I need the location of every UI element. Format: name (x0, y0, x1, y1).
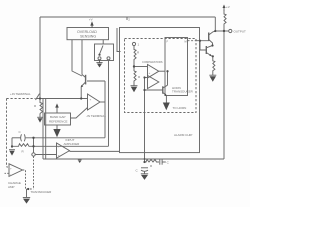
junction dot horn base (199, 40, 201, 42)
svg-text:2: 2 (128, 18, 130, 22)
arrowhead Q3 emitter (164, 94, 166, 96)
comparator A2 (148, 76, 159, 89)
arrowhead +V top right (223, 5, 226, 9)
ground G3 stem (26, 189, 28, 197)
junction dot Q3 base (143, 89, 145, 91)
capacitor C3 shunt (141, 167, 148, 169)
svg-text:F: F (167, 40, 169, 44)
reference block U3 (45, 113, 71, 125)
arrowhead reference up (55, 103, 59, 107)
wire overload box collector lead (81, 40, 83, 75)
wire transducer terminal dashed drop (33, 156, 35, 189)
ground triangle G7 (141, 175, 148, 180)
junction dot comp2 input (143, 76, 145, 78)
ground triangle G1 (97, 64, 102, 68)
filled parts (9, 5, 225, 204)
ground triangle G5 (131, 87, 137, 93)
wire vertical pair A (42, 99, 44, 160)
svg-text:TO HORN: TO HORN (173, 106, 187, 110)
wire left drop from rail (39, 17, 41, 99)
svg-text:+V: +V (89, 17, 93, 21)
wire Q5 emitter to R5 (212, 55, 213, 57)
pin circle right (107, 57, 110, 60)
svg-text:-: - (149, 65, 150, 69)
wire U5 output dashed (23, 170, 34, 189)
big arrow D1 down (53, 129, 60, 137)
wire reference to U2 inverting input (71, 108, 88, 119)
junction dot cap wire (32, 137, 34, 139)
terminal circle output (229, 29, 232, 32)
wire sense vertical (144, 78, 146, 163)
wire cap left (12, 137, 21, 139)
svg-text:-: - (10, 173, 11, 177)
svg-text:+: + (149, 71, 151, 75)
svg-text:AMP: AMP (8, 185, 15, 189)
wire input terminal to amp (35, 154, 56, 156)
wire +IN line to error amp (36, 98, 88, 100)
svg-text:+: + (90, 98, 92, 102)
svg-text:R: R (137, 51, 140, 55)
wire horn feedback solid (196, 39, 209, 41)
wire horn feedback out dashed (188, 40, 197, 42)
stem +V right (223, 7, 226, 11)
wire output drop right side (223, 31, 225, 159)
junction dot transducer gnd (27, 188, 29, 190)
transistor Q1 (81, 75, 85, 87)
ground G8 small below rail (79, 158, 81, 161)
wire U2 output stub (100, 101, 105, 103)
svg-text:AMPLIFIER: AMPLIFIER (64, 142, 81, 146)
wire inner box pin jog (117, 28, 121, 52)
junction dot divider (133, 65, 135, 67)
wire Q3 collector up (167, 71, 169, 85)
capacitor C2 plates (159, 159, 161, 164)
wire pass box right pin down (108, 60, 110, 147)
ground G2 (9, 149, 15, 151)
wire Q3 base (145, 89, 163, 91)
svg-text:ALARM CHIP: ALARM CHIP (174, 133, 192, 137)
svg-text:1: 1 (138, 43, 140, 47)
svg-text:R: R (150, 164, 153, 168)
terminal circle input (32, 153, 35, 156)
svg-text:C: C (136, 169, 139, 173)
svg-text:COMPARATORS: COMPARATORS (142, 60, 163, 64)
wire R3 to node (133, 62, 135, 71)
wire output node run (215, 30, 229, 32)
ground G7 (141, 173, 148, 175)
transistor Q5 (206, 46, 212, 57)
svg-text:+IN TERMINAL: +IN TERMINAL (10, 92, 31, 96)
ground triangle G4 (38, 118, 43, 122)
wire node x33 vertical (33, 138, 35, 153)
arrowhead +V overload (90, 21, 93, 25)
svg-text:C: C (167, 160, 170, 164)
wire Q3 emitter down (165, 96, 167, 103)
horn transducer box (165, 38, 188, 96)
bottom feedback rail (43, 158, 224, 160)
break slash symbol (36, 94, 40, 100)
junction dot pass transistor (98, 54, 100, 56)
svg-text:M: M (185, 40, 187, 44)
svg-text:-: - (58, 145, 59, 149)
ground G4 (39, 114, 41, 118)
svg-text:-IN TERMINAL: -IN TERMINAL (86, 114, 106, 118)
wire cap feedback run (26, 137, 105, 139)
junction dot rail cross (144, 158, 146, 160)
ground triangle G6 (210, 76, 216, 81)
wire base drop to amp output (104, 81, 106, 138)
op-amp U4 input amplifier (57, 143, 70, 158)
ground G1 bar (96, 61, 102, 64)
svg-text:-: - (90, 107, 91, 111)
svg-text:TRANSDUCER: TRANSDUCER (172, 90, 194, 94)
wire G1 stem (98, 60, 101, 63)
wire Q5 base route (200, 41, 206, 50)
node pin 2 tick on rail (126, 17, 128, 20)
svg-text:OUTPUT: OUTPUT (234, 30, 247, 34)
wire comparator output (159, 70, 165, 72)
overload sensing block U1 (67, 28, 109, 40)
arrowhead Q5 emitter (209, 54, 211, 56)
capacitor C1 coupling arcs (21, 134, 26, 141)
ground triangle G3 (23, 199, 30, 204)
dashed transducer top edge (7, 98, 36, 100)
junction dot res wire (32, 145, 34, 147)
RC snubber junction wire (145, 159, 160, 162)
transistor Q3 (163, 85, 168, 96)
comparator A1 (148, 65, 159, 79)
op-amp U5 charge amp (9, 164, 23, 177)
main IC solid box (120, 28, 200, 153)
wire overload box to pass box (102, 40, 104, 44)
wire overload box left lead (72, 40, 82, 76)
terminal circle pin 1 (132, 42, 135, 45)
wire U5 plus input dashed (7, 166, 10, 168)
resistor R2 bias (40, 98, 43, 114)
resistor R1 feedback (12, 144, 109, 147)
pass transistor box (95, 44, 114, 61)
svg-text:SENSING: SENSING (80, 35, 96, 39)
svg-text:R: R (22, 150, 25, 154)
resistor R6 (224, 11, 226, 32)
svg-text:OVERLOAD: OVERLOAD (77, 30, 97, 34)
op-amp U2 error amp (88, 94, 101, 110)
arrow up from reference (56, 108, 58, 114)
dashed transducer model left edge (6, 99, 8, 168)
wire node to comparator (134, 66, 148, 68)
wire vertical pair B (45, 99, 47, 160)
arrow down from reference stem (56, 125, 58, 129)
ground G5 (133, 82, 135, 86)
junction dot Q1 emitter (80, 97, 82, 99)
wire top supply rail (40, 16, 215, 18)
svg-text:+: + (10, 167, 12, 171)
wire rail drop right (214, 17, 216, 31)
resistor R4 (134, 71, 136, 82)
junction dot +IN/R2 (39, 97, 41, 99)
resistor R3 (134, 46, 136, 62)
svg-text:+V: +V (226, 5, 230, 9)
svg-text:+: + (58, 154, 60, 158)
junction dot Q45 collectors (211, 44, 213, 46)
svg-text:REFERENCE: REFERENCE (49, 119, 68, 123)
svg-text:R: R (138, 75, 141, 79)
svg-text:C: C (19, 130, 22, 134)
wire Q1 emitter to +IN node (80, 87, 82, 99)
ground G8 triangle (78, 161, 81, 163)
wire Q1 base run (87, 80, 105, 82)
wire U5 minus stub (5, 172, 10, 174)
junction dot rail drop (214, 30, 216, 32)
wire input amp output rail (70, 150, 120, 152)
junction dot Q3 collector (166, 70, 168, 72)
svg-text:R: R (34, 104, 37, 108)
wire C3 stem (144, 171, 146, 174)
svg-text:TRANSDUCER: TRANSDUCER (31, 190, 53, 194)
pin circle left (98, 57, 101, 60)
big arrow D2 down (163, 103, 170, 111)
ground triangle G2 (9, 151, 14, 156)
junction dot RC (143, 161, 145, 163)
arrowhead Q1 emitter (81, 85, 83, 87)
dashed horn section box (125, 39, 197, 113)
junction dot left node (11, 145, 13, 147)
junction dot output node (223, 30, 225, 32)
wire left node vertical (11, 138, 13, 148)
ground G6 (209, 74, 216, 76)
stem overload arrow (91, 25, 94, 28)
transistor Q4 (209, 31, 216, 45)
transistor inside pass box (100, 46, 104, 55)
wire comp2 input (145, 77, 148, 79)
resistor R5 (213, 56, 215, 75)
